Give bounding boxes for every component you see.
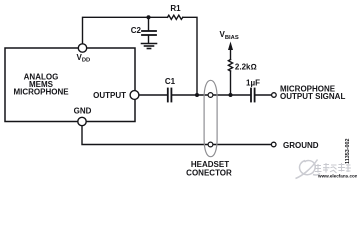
svg-text:CONECTOR: CONECTOR [186,169,232,178]
junction node R2/output [229,93,233,97]
watermark text [315,163,351,173]
MEMS microphone body U1 [5,48,135,122]
svg-text:VBIAS: VBIAS [220,30,239,41]
wire output line [172,94,250,96]
svg-text:www.elecfans.com: www.elecfans.com [317,174,357,179]
label MICROPHONE OUTPUT SIGNAL [280,84,345,101]
svg-text:C2: C2 [131,26,142,35]
wire R1 to output node [183,17,197,95]
svg-text:GND: GND [74,106,92,115]
capacitor C2 [142,17,156,43]
label HEADSET CONECTOR [186,160,232,178]
pin GND [78,117,86,125]
headset connector ellipse [204,80,217,156]
V_BIAS arrow [228,42,233,60]
svg-text:VDD: VDD [77,53,91,64]
svg-text:MICROPHONE: MICROPHONE [13,88,69,97]
capacitor 1uF [251,89,255,102]
svg-text:GROUND: GROUND [283,141,319,150]
watermark elecfans logo [296,160,321,179]
wire VDD to top rail [83,17,168,44]
wire OUTPUT pin to C1 [139,94,167,96]
pin OUTPUT [130,91,139,100]
contact on output line [208,93,213,98]
svg-text:HEADSET: HEADSET [191,160,229,169]
terminal ground [271,142,276,147]
junction node C2/rail [147,15,151,19]
ground [142,44,157,49]
wire to output terminal [255,94,271,96]
svg-text:11353-002: 11353-002 [345,139,351,164]
terminal microphone output [272,93,277,98]
junction node R1/output [195,93,199,97]
svg-text:C1: C1 [165,77,176,86]
capacitor C1 [168,89,172,102]
wire R2 to output line [230,71,232,95]
svg-text:OUTPUT: OUTPUT [93,91,126,100]
pin VDD [78,44,86,52]
svg-text:OUTPUT SIGNAL: OUTPUT SIGNAL [280,92,345,101]
svg-text:1µF: 1µF [246,79,260,88]
label ANALOG MEMS MICROPHONE [13,72,69,96]
wire GND pin down and ground line [82,126,271,145]
svg-text:R1: R1 [170,4,181,13]
resistor R1 [168,15,183,19]
contact on ground line [208,142,213,147]
resistor R2 2.2k [228,60,232,72]
svg-text:2.2kΩ: 2.2kΩ [235,63,257,72]
